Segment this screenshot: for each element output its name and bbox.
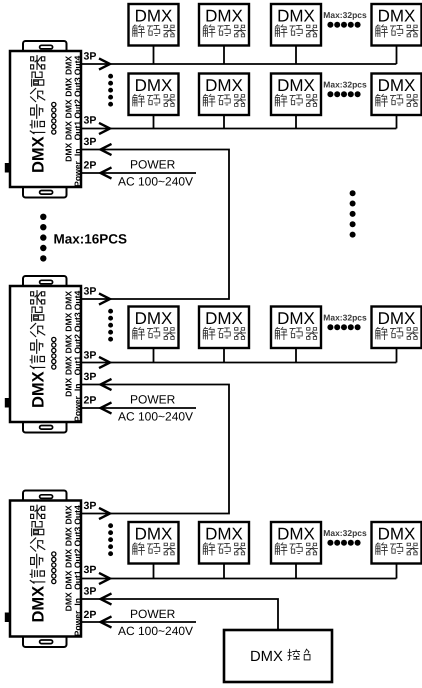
svg-text:DMX: DMX (277, 6, 315, 25)
svg-text:Out1: Out1 (72, 570, 82, 590)
svg-text:In: In (72, 598, 82, 606)
svg-text:DMX: DMX (378, 76, 416, 95)
svg-text:3P: 3P (84, 51, 97, 63)
svg-text:POWER: POWER (130, 607, 176, 621)
svg-text:Max:32pcs: Max:32pcs (323, 313, 367, 323)
svg-text:DMX: DMX (135, 309, 173, 328)
svg-text:3P: 3P (84, 564, 97, 576)
svg-text:3P: 3P (84, 371, 97, 383)
svg-text:Out3: Out3 (72, 77, 82, 97)
svg-text:Out1: Out1 (72, 121, 82, 141)
svg-text:DMX: DMX (135, 76, 173, 95)
svg-text:3P: 3P (84, 586, 97, 598)
svg-text:Max:32pcs: Max:32pcs (323, 528, 367, 538)
svg-text:Out2: Out2 (72, 99, 82, 119)
svg-text:2P: 2P (84, 160, 97, 172)
svg-text:3P: 3P (84, 286, 97, 298)
svg-text:AC 100~240V: AC 100~240V (118, 175, 193, 189)
svg-text:Out4: Out4 (72, 55, 82, 75)
svg-text:DMX: DMX (205, 76, 243, 95)
svg-text:In: In (72, 383, 82, 391)
svg-text:In: In (72, 148, 82, 156)
svg-text:DMX: DMX (135, 6, 173, 25)
svg-text:3P: 3P (84, 350, 97, 362)
svg-text:Power: Power (72, 160, 82, 186)
svg-text:Out1: Out1 (72, 356, 82, 376)
svg-text:Out3: Out3 (72, 527, 82, 547)
svg-text:DMX: DMX (205, 309, 243, 328)
svg-text:DMX: DMX (378, 309, 416, 328)
svg-text:DMX: DMX (378, 524, 416, 543)
svg-text:Max:32pcs: Max:32pcs (323, 10, 367, 20)
svg-text:DMX: DMX (277, 76, 315, 95)
svg-text:DMX: DMX (135, 524, 173, 543)
svg-text:DMX: DMX (205, 6, 243, 25)
svg-text:2P: 2P (84, 395, 97, 407)
svg-text:2P: 2P (84, 609, 97, 621)
svg-text:3P: 3P (84, 115, 97, 127)
svg-text:Max:16PCS: Max:16PCS (54, 232, 128, 247)
svg-text:Out2: Out2 (72, 334, 82, 354)
svg-text:DMX: DMX (378, 6, 416, 25)
svg-text:DMX: DMX (205, 524, 243, 543)
svg-text:Out4: Out4 (72, 505, 82, 525)
svg-text:DMX: DMX (30, 371, 48, 408)
svg-text:DMX: DMX (250, 649, 283, 665)
svg-text:AC 100~240V: AC 100~240V (118, 624, 193, 638)
svg-text:DMX: DMX (277, 309, 315, 328)
svg-text:Out4: Out4 (72, 290, 82, 310)
svg-text:Power: Power (72, 610, 82, 636)
svg-text:DMX: DMX (277, 524, 315, 543)
svg-text:Out3: Out3 (72, 312, 82, 332)
svg-text:Max:32pcs: Max:32pcs (323, 80, 367, 90)
svg-text:DMX: DMX (30, 136, 48, 173)
svg-text:AC 100~240V: AC 100~240V (118, 410, 193, 424)
svg-text:3P: 3P (84, 500, 97, 512)
svg-text:Out2: Out2 (72, 548, 82, 568)
svg-text:Power: Power (72, 395, 82, 421)
svg-text:POWER: POWER (130, 158, 176, 172)
svg-text:DMX: DMX (30, 586, 48, 623)
svg-text:3P: 3P (84, 136, 97, 148)
svg-text:POWER: POWER (130, 393, 176, 407)
